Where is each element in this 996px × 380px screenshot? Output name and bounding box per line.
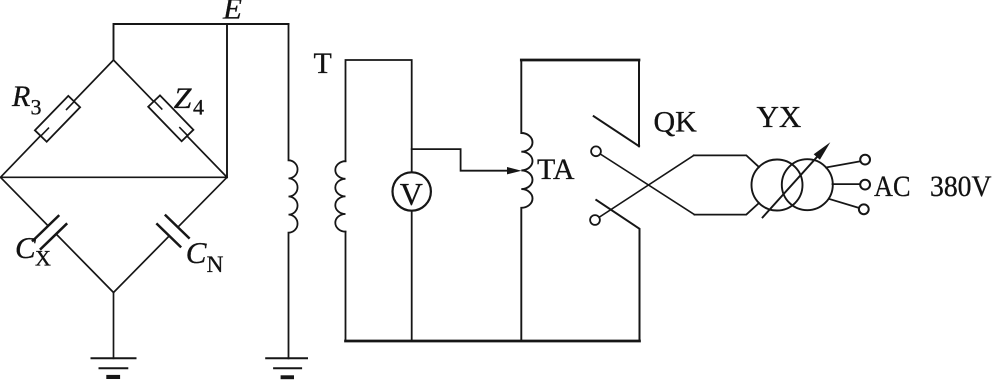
svg-text:TA: TA <box>537 153 575 186</box>
svg-text:3: 3 <box>31 95 42 120</box>
svg-text:N: N <box>207 252 224 278</box>
svg-text:R: R <box>11 80 30 113</box>
svg-text:E: E <box>222 0 242 25</box>
svg-text:T: T <box>314 47 332 80</box>
svg-text:X: X <box>35 246 51 271</box>
svg-text:4: 4 <box>193 95 204 120</box>
svg-text:C: C <box>15 230 36 265</box>
svg-text:380V: 380V <box>930 170 992 203</box>
svg-text:C: C <box>186 235 207 270</box>
svg-text:YX: YX <box>757 99 802 134</box>
svg-text:Z: Z <box>174 82 192 115</box>
svg-text:QK: QK <box>654 106 698 139</box>
svg-text:AC: AC <box>874 170 911 203</box>
svg-text:V: V <box>400 176 423 212</box>
